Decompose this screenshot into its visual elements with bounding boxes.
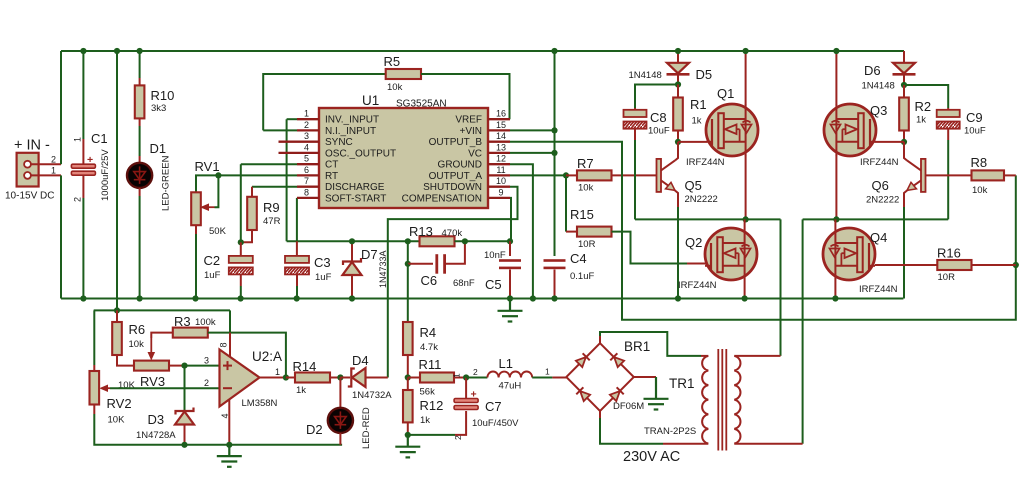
svg-text:1N4733A: 1N4733A bbox=[378, 250, 388, 288]
diode D3 1N4728A (zener) bbox=[175, 408, 194, 425]
wire BR1 AC2 to TR1 bottom bbox=[600, 418, 663, 444]
resistor R1 body bbox=[673, 98, 683, 131]
node op-amp +input bbox=[181, 363, 187, 369]
node D6/R2/C9 bbox=[901, 82, 907, 88]
wire R12 bottom bbox=[407, 422, 409, 435]
svg-text:C5: C5 bbox=[485, 277, 502, 292]
wire C8 bottom lead bbox=[634, 129, 636, 140]
svg-text:Q3: Q3 bbox=[870, 103, 887, 118]
wire C6 left lead bbox=[408, 263, 433, 265]
wire D7 top lead bbox=[351, 241, 353, 261]
wire CT down to C2 bbox=[240, 164, 242, 242]
svg-text:11: 11 bbox=[496, 165, 505, 175]
wire C6 right lead up bbox=[446, 241, 465, 263]
svg-text:10K: 10K bbox=[118, 380, 136, 391]
svg-text:7: 7 bbox=[304, 176, 309, 186]
svg-text:DF06M: DF06M bbox=[613, 401, 644, 412]
svg-text:1: 1 bbox=[452, 373, 462, 378]
transistor Q4 (IRFZ44N MOSFET) bbox=[823, 228, 875, 280]
node D7/comp row bbox=[349, 238, 355, 244]
svg-text:R1: R1 bbox=[690, 97, 707, 112]
wire C5 to gnd bbox=[509, 270, 511, 299]
svg-text:10nF: 10nF bbox=[484, 250, 506, 261]
BR1 diode top-left bbox=[576, 353, 590, 367]
node C1 top rail bbox=[80, 48, 86, 54]
svg-text:Q1: Q1 bbox=[717, 86, 734, 101]
svg-text:VREF: VREF bbox=[455, 115, 482, 126]
svg-text:C8: C8 bbox=[650, 110, 667, 125]
diode D7 1N4733A (zener) bbox=[343, 258, 362, 275]
svg-text:R10: R10 bbox=[151, 88, 175, 103]
svg-text:R4: R4 bbox=[420, 325, 437, 340]
ground at BR1 bbox=[644, 377, 669, 410]
node +VIN bbox=[551, 127, 557, 133]
wire RV2 wiper to -input bbox=[110, 387, 220, 389]
svg-text:1: 1 bbox=[275, 367, 280, 377]
wire +12V to op-amp section bbox=[116, 51, 118, 310]
wire R9 top to pin7 bbox=[252, 186, 297, 188]
svg-text:R3: R3 bbox=[174, 314, 191, 329]
wire R2 bottom bbox=[903, 131, 905, 142]
wire bottom gnd row bbox=[94, 414, 342, 445]
wire connector pin2 to +rail bbox=[31, 163, 61, 165]
svg-text:LED-RED: LED-RED bbox=[361, 407, 372, 449]
svg-text:CT: CT bbox=[325, 160, 338, 171]
resistor R9 body bbox=[247, 197, 257, 230]
wire to L1 bbox=[466, 377, 487, 379]
pin 9 COMPENSATION bbox=[488, 197, 510, 199]
svg-text:R12: R12 bbox=[420, 398, 444, 413]
wire to C9 top bbox=[904, 85, 948, 108]
pin 7 DISCHARGE bbox=[297, 186, 319, 188]
svg-text:2: 2 bbox=[51, 155, 56, 165]
svg-text:12: 12 bbox=[496, 154, 506, 164]
svg-text:RV3: RV3 bbox=[140, 374, 165, 389]
svg-text:10R: 10R bbox=[578, 239, 596, 250]
node R16 right bbox=[1013, 262, 1019, 268]
wire R15 left lead bbox=[566, 231, 577, 233]
wire pin13 VC bbox=[510, 152, 555, 154]
wire R4 bottom bbox=[407, 355, 409, 378]
svg-text:SYNC: SYNC bbox=[325, 137, 353, 148]
svg-text:1k: 1k bbox=[692, 116, 702, 127]
svg-text:2: 2 bbox=[304, 120, 309, 130]
node D2/D4 bbox=[337, 374, 343, 380]
op-amp U2:A LM358N bbox=[220, 350, 260, 407]
pin 8 SOFT-START bbox=[297, 197, 319, 199]
svg-text:RT: RT bbox=[325, 171, 338, 182]
wire +12V top rail bbox=[61, 50, 904, 52]
wire D5 to node bbox=[677, 74, 679, 84]
wire Q1 drain to rail bbox=[745, 51, 747, 105]
wire Q6 base to R8 bbox=[926, 174, 972, 176]
svg-text:INV._INPUT: INV._INPUT bbox=[325, 115, 379, 126]
svg-text:4: 4 bbox=[304, 142, 309, 152]
wire pin14 OUTPUT_B to R8/R16 bbox=[510, 142, 1016, 320]
svg-text:2: 2 bbox=[73, 197, 83, 202]
wire pin11 OUTPUT_A bbox=[510, 174, 566, 176]
svg-text:RV2: RV2 bbox=[107, 396, 132, 411]
svg-text:4.7k: 4.7k bbox=[420, 342, 438, 353]
wire Q4 drain bbox=[834, 219, 836, 228]
svg-text:1: 1 bbox=[51, 166, 56, 176]
node pin9/C5 bbox=[507, 238, 513, 244]
wire C9 bottom lead bbox=[947, 129, 949, 140]
resistor R15 body bbox=[577, 227, 612, 237]
wire R15 to Q2 gate bbox=[612, 232, 688, 264]
wire Q6 emitter to gnd bbox=[904, 191, 907, 208]
wire BR1 AC2 stub bbox=[599, 411, 601, 418]
node VC bbox=[551, 150, 557, 156]
connector J1 + IN - bbox=[17, 153, 39, 187]
svg-text:10uF: 10uF bbox=[648, 126, 670, 137]
capacitor C6 68nF plates bbox=[435, 254, 446, 274]
svg-text:C6: C6 bbox=[421, 273, 438, 288]
wire D5 top lead bbox=[677, 51, 679, 63]
wire R2 top lead bbox=[903, 85, 905, 98]
pin 6 RT bbox=[297, 174, 319, 176]
resistor R14 body bbox=[295, 373, 330, 383]
capacitor C7 plates bbox=[454, 399, 478, 410]
pin 14 OUTPUT_B bbox=[488, 141, 510, 143]
pin 13 VC bbox=[488, 152, 510, 154]
capacitor C1 plates bbox=[71, 164, 95, 175]
svg-text:10-15V DC: 10-15V DC bbox=[5, 191, 54, 202]
wire rail down to D6 bbox=[903, 51, 905, 63]
wire C3 to gnd bbox=[296, 275, 298, 286]
wire pin5 CT bbox=[241, 163, 297, 165]
svg-text:100k: 100k bbox=[195, 317, 216, 328]
svg-text:IRFZ44N: IRFZ44N bbox=[686, 157, 725, 168]
wire Q1 source to phase A bbox=[745, 156, 747, 220]
wire to C7 bottom bbox=[408, 434, 455, 436]
wire R12 top bbox=[407, 378, 409, 391]
wire rail to RV2 bbox=[93, 310, 95, 365]
wire BR1 AC1 stub bbox=[599, 336, 601, 343]
svg-text:3: 3 bbox=[304, 131, 309, 141]
transistor Q5 (2N2222 BJT) bbox=[657, 159, 676, 192]
wire Q6 collector up bbox=[904, 142, 907, 161]
svg-text:R5: R5 bbox=[384, 54, 401, 69]
svg-text:8: 8 bbox=[304, 187, 309, 197]
svg-text:1: 1 bbox=[73, 137, 83, 142]
capacitor C5 plates bbox=[499, 259, 521, 269]
wire R16 right bbox=[972, 264, 1016, 266]
svg-text:1000uF/25V: 1000uF/25V bbox=[100, 149, 111, 201]
pin 5 CT bbox=[297, 163, 319, 165]
pin 10 SHUTDOWN bbox=[488, 186, 510, 188]
svg-text:SG3525AN: SG3525AN bbox=[396, 99, 447, 110]
transistor Q3 (IRFZ44N MOSFET) bbox=[824, 104, 876, 156]
svg-text:IRFZ44N: IRFZ44N bbox=[860, 157, 899, 168]
bridge rectifier BR1 DF06M bbox=[566, 343, 634, 411]
svg-text:IRFZ44N: IRFZ44N bbox=[859, 284, 898, 295]
svg-text:TRAN-2P2S: TRAN-2P2S bbox=[644, 426, 696, 437]
svg-text:OUTPUT_A: OUTPUT_A bbox=[429, 171, 483, 182]
svg-text:1: 1 bbox=[304, 109, 309, 119]
wire pin9 COMPENSATION down bbox=[510, 198, 511, 241]
potentiometer RV3 10K bbox=[134, 361, 169, 371]
ground at C5 bbox=[498, 299, 523, 322]
svg-text:10uF/450V: 10uF/450V bbox=[472, 418, 519, 429]
node R6 top bbox=[114, 307, 120, 313]
svg-text:15: 15 bbox=[496, 120, 506, 130]
resistor R5 body bbox=[386, 69, 421, 79]
svg-text:R9: R9 bbox=[263, 200, 280, 215]
svg-text:10k: 10k bbox=[129, 339, 145, 350]
transistor Q2 (IRFZ44N MOSFET) bbox=[705, 228, 757, 280]
wire down to C6 bbox=[407, 241, 409, 263]
wire C2 to gnd bbox=[240, 275, 242, 286]
svg-text:10R: 10R bbox=[938, 272, 956, 283]
wire BR1 - to gnd bbox=[634, 376, 656, 378]
svg-text:DISCHARGE: DISCHARGE bbox=[325, 182, 385, 193]
svg-text:+: + bbox=[87, 154, 93, 166]
svg-text:1uF: 1uF bbox=[315, 272, 332, 283]
wire C5 top lead bbox=[509, 241, 511, 256]
svg-text:R11: R11 bbox=[419, 357, 442, 372]
wire to Q1 gate bbox=[678, 141, 707, 143]
wire comp row left bbox=[287, 240, 420, 242]
wire op-amp pin4 V- to gnd bbox=[228, 400, 230, 445]
svg-text:3k3: 3k3 bbox=[151, 103, 166, 114]
wire OUTPUT_A down to R15 bbox=[565, 175, 567, 231]
svg-text:D3: D3 bbox=[148, 412, 165, 427]
wire Q3 source to phase B bbox=[835, 156, 837, 220]
svg-text:R16: R16 bbox=[937, 246, 961, 261]
svg-text:9: 9 bbox=[498, 187, 503, 197]
transistor Q6 (2N2222 BJT) bbox=[907, 159, 926, 192]
wire - vertical bbox=[60, 175, 62, 298]
wire R7 to Q5 base bbox=[612, 174, 657, 176]
svg-text:68nF: 68nF bbox=[453, 278, 475, 289]
node C6 left bbox=[405, 261, 411, 267]
wire op-amp section +12 rail bbox=[94, 309, 230, 311]
wire pin1 INV bbox=[287, 118, 297, 120]
wire Q5 emitter to gnd bbox=[675, 191, 678, 208]
svg-text:D1: D1 bbox=[150, 141, 167, 156]
LED D2 LED-RED bbox=[328, 408, 353, 433]
svg-text:C3: C3 bbox=[314, 255, 331, 270]
svg-text:2N2222: 2N2222 bbox=[866, 195, 899, 206]
svg-text:TR1: TR1 bbox=[669, 376, 695, 391]
svg-text:56k: 56k bbox=[420, 387, 436, 398]
svg-text:Q2: Q2 bbox=[685, 235, 702, 250]
svg-text:2: 2 bbox=[453, 435, 463, 440]
svg-text:1N4148: 1N4148 bbox=[862, 81, 895, 92]
svg-text:D7: D7 bbox=[361, 247, 378, 262]
node C7/L1 bbox=[463, 374, 469, 380]
wire R9 bottom to CT node bbox=[241, 230, 252, 242]
svg-text:+ IN -: + IN - bbox=[14, 138, 50, 154]
LED D1 LED-GREEN bbox=[127, 163, 152, 188]
svg-text:2: 2 bbox=[473, 367, 478, 377]
node phase A bbox=[743, 216, 749, 222]
svg-text:Q5: Q5 bbox=[685, 178, 702, 193]
wire R13 right to pin9 node bbox=[455, 240, 511, 242]
wire phase B row bbox=[803, 218, 949, 220]
capacitor C9 plates bbox=[937, 110, 960, 129]
resistor R13 body bbox=[420, 236, 455, 246]
wire RV1 bottom bbox=[195, 225, 197, 234]
svg-text:C4: C4 bbox=[570, 251, 587, 266]
resistor R3 body bbox=[173, 328, 208, 338]
node OUTPUT_A bbox=[563, 172, 569, 178]
svg-text:C7: C7 bbox=[485, 399, 502, 414]
wire C3 top lead bbox=[296, 241, 298, 256]
resistor R11 body bbox=[420, 373, 454, 383]
svg-text:1k: 1k bbox=[916, 115, 926, 126]
svg-text:1N4148: 1N4148 bbox=[629, 70, 662, 81]
svg-text:10: 10 bbox=[496, 176, 506, 186]
wire RV1 top to pin6 RT bbox=[196, 175, 297, 192]
svg-text:+: + bbox=[471, 389, 477, 401]
node D5/R1/C8 bbox=[675, 81, 681, 87]
svg-text:R7: R7 bbox=[577, 156, 594, 171]
wire phase B to TR1 bbox=[802, 219, 804, 443]
pin 4 OSC._OUTPUT bbox=[279, 152, 320, 154]
svg-text:IRFZ44N: IRFZ44N bbox=[678, 280, 717, 291]
svg-text:U2:A: U2:A bbox=[252, 349, 282, 364]
transformer TR1 TRAN-2P2S bbox=[701, 355, 708, 357]
pin 11 OUTPUT_A bbox=[488, 174, 510, 176]
wire pin1 down bbox=[286, 119, 288, 241]
svg-text:R2: R2 bbox=[915, 99, 932, 114]
svg-text:COMPENSATION: COMPENSATION bbox=[402, 193, 482, 204]
wire RV2 bottom bbox=[93, 405, 95, 415]
wire Q4 source to gnd bbox=[834, 280, 836, 299]
resistor R6 body bbox=[112, 322, 122, 355]
wire pin2 NI input bbox=[263, 129, 297, 131]
svg-text:R14: R14 bbox=[293, 359, 317, 374]
wire D2 top lead bbox=[339, 378, 341, 408]
resistor R7 body bbox=[577, 170, 612, 180]
wire rail down to V+ node bbox=[229, 310, 231, 332]
svg-text:2: 2 bbox=[204, 378, 209, 388]
svg-text:14: 14 bbox=[496, 131, 506, 141]
resistor R2 body bbox=[899, 98, 909, 131]
svg-text:1N4728A: 1N4728A bbox=[136, 430, 176, 441]
resistor R12 body bbox=[403, 390, 413, 422]
node R13 left bbox=[405, 238, 411, 244]
svg-text:1N4732A: 1N4732A bbox=[352, 390, 392, 401]
wire RV3 right to +in bbox=[169, 365, 185, 367]
svg-text:47uH: 47uH bbox=[499, 381, 522, 392]
svg-text:10k: 10k bbox=[972, 185, 988, 196]
wire R3 right to V+ node bbox=[208, 332, 230, 334]
svg-text:Q4: Q4 bbox=[870, 230, 887, 245]
resistor R8 body bbox=[972, 170, 1005, 180]
wire L1 to BR1 bbox=[532, 377, 552, 379]
wire R6 to RV3 bbox=[117, 355, 134, 366]
BR1 diode bottom-left bbox=[576, 387, 590, 401]
svg-text:U1: U1 bbox=[362, 93, 379, 108]
svg-text:SOFT-START: SOFT-START bbox=[325, 193, 386, 204]
wire comp node down to R4 bbox=[407, 264, 409, 322]
svg-text:LED-GREEN: LED-GREEN bbox=[161, 155, 172, 211]
wire C7 top lead bbox=[465, 378, 467, 399]
wire +VIN/VC vertical bbox=[554, 51, 556, 256]
svg-text:16: 16 bbox=[496, 109, 506, 119]
svg-text:10k: 10k bbox=[578, 183, 594, 194]
node C6/R13 right bbox=[462, 238, 468, 244]
svg-text:D6: D6 bbox=[864, 63, 881, 78]
wire SHUTDOWN to D4 bbox=[388, 187, 518, 378]
wire Q2 source to gnd bbox=[744, 280, 746, 299]
svg-text:10K: 10K bbox=[108, 415, 126, 426]
transistor Q1 (IRFZ44N MOSFET) bbox=[706, 104, 758, 156]
IC U1 SG3525AN body bbox=[319, 108, 488, 208]
svg-text:2N2222: 2N2222 bbox=[685, 194, 718, 205]
wire V+ node to output node bbox=[230, 333, 286, 378]
svg-text:C9: C9 bbox=[966, 110, 983, 125]
diode D4 (zener 1N4732A) bbox=[348, 368, 366, 387]
svg-text:R6: R6 bbox=[129, 322, 146, 337]
diode D6 (1N4148) bbox=[893, 63, 916, 75]
svg-text:8: 8 bbox=[219, 342, 229, 347]
wire D7 to gnd bbox=[351, 276, 353, 299]
wire ground bus bbox=[61, 298, 903, 300]
wire phase A row bbox=[635, 218, 781, 220]
svg-text:D4: D4 bbox=[352, 353, 369, 368]
svg-text:50K: 50K bbox=[209, 226, 227, 237]
wire +in down to D3 bbox=[184, 366, 186, 411]
wire R10 top bbox=[139, 51, 141, 78]
svg-text:D5: D5 bbox=[696, 67, 713, 82]
wire R5 right to VREF pin16 bbox=[421, 74, 510, 119]
wire D1 to gnd bbox=[139, 188, 141, 196]
svg-text:1: 1 bbox=[545, 367, 550, 377]
wire R6 top lead bbox=[116, 310, 118, 322]
svg-text:R15: R15 bbox=[570, 207, 594, 222]
ground at op-amp bbox=[217, 445, 242, 467]
wire BR1 AC1 to TR1 top bbox=[600, 332, 701, 356]
wire to Q3 gate bbox=[876, 141, 905, 143]
svg-text:GROUND: GROUND bbox=[438, 160, 482, 171]
svg-text:Q6: Q6 bbox=[872, 178, 889, 193]
wire pin12 GROUND down bbox=[510, 164, 533, 298]
wire to C8 top bbox=[635, 85, 678, 109]
node R4/R11/R12 bbox=[405, 374, 411, 380]
node output bbox=[283, 374, 289, 380]
diode D5 (1N4148) bbox=[667, 63, 690, 75]
resistor R10 body bbox=[135, 85, 145, 118]
svg-text:SHUTDOWN: SHUTDOWN bbox=[423, 182, 482, 193]
wire C1 bottom lead bbox=[82, 175, 84, 198]
svg-text:R13: R13 bbox=[409, 224, 433, 239]
node Q1 gate bbox=[675, 139, 681, 145]
wire RV1 wiper bbox=[215, 175, 219, 207]
wire TR1 primary bottom to phase B bbox=[734, 443, 802, 445]
svg-text:N.I._INPUT: N.I._INPUT bbox=[325, 126, 376, 137]
svg-text:L1: L1 bbox=[499, 356, 513, 371]
wire R1 bottom bbox=[677, 131, 679, 142]
wire connector pin1 to gnd bbox=[31, 174, 61, 176]
svg-text:470k: 470k bbox=[442, 228, 463, 239]
pin 1 INV._INPUT bbox=[297, 118, 319, 120]
wire C9 to phase B bbox=[947, 140, 949, 219]
svg-text:47R: 47R bbox=[263, 216, 281, 227]
wire R1 top lead bbox=[677, 85, 679, 98]
svg-text:0.1uF: 0.1uF bbox=[570, 271, 594, 282]
node CT/C2 bbox=[238, 239, 244, 245]
svg-text:C2: C2 bbox=[204, 253, 221, 268]
wire + vertical bbox=[60, 51, 62, 164]
pin 15 +VIN bbox=[488, 129, 510, 131]
wire Q4 gate to R16 bbox=[875, 264, 937, 266]
svg-text:5: 5 bbox=[304, 154, 309, 164]
svg-text:BR1: BR1 bbox=[624, 339, 650, 354]
